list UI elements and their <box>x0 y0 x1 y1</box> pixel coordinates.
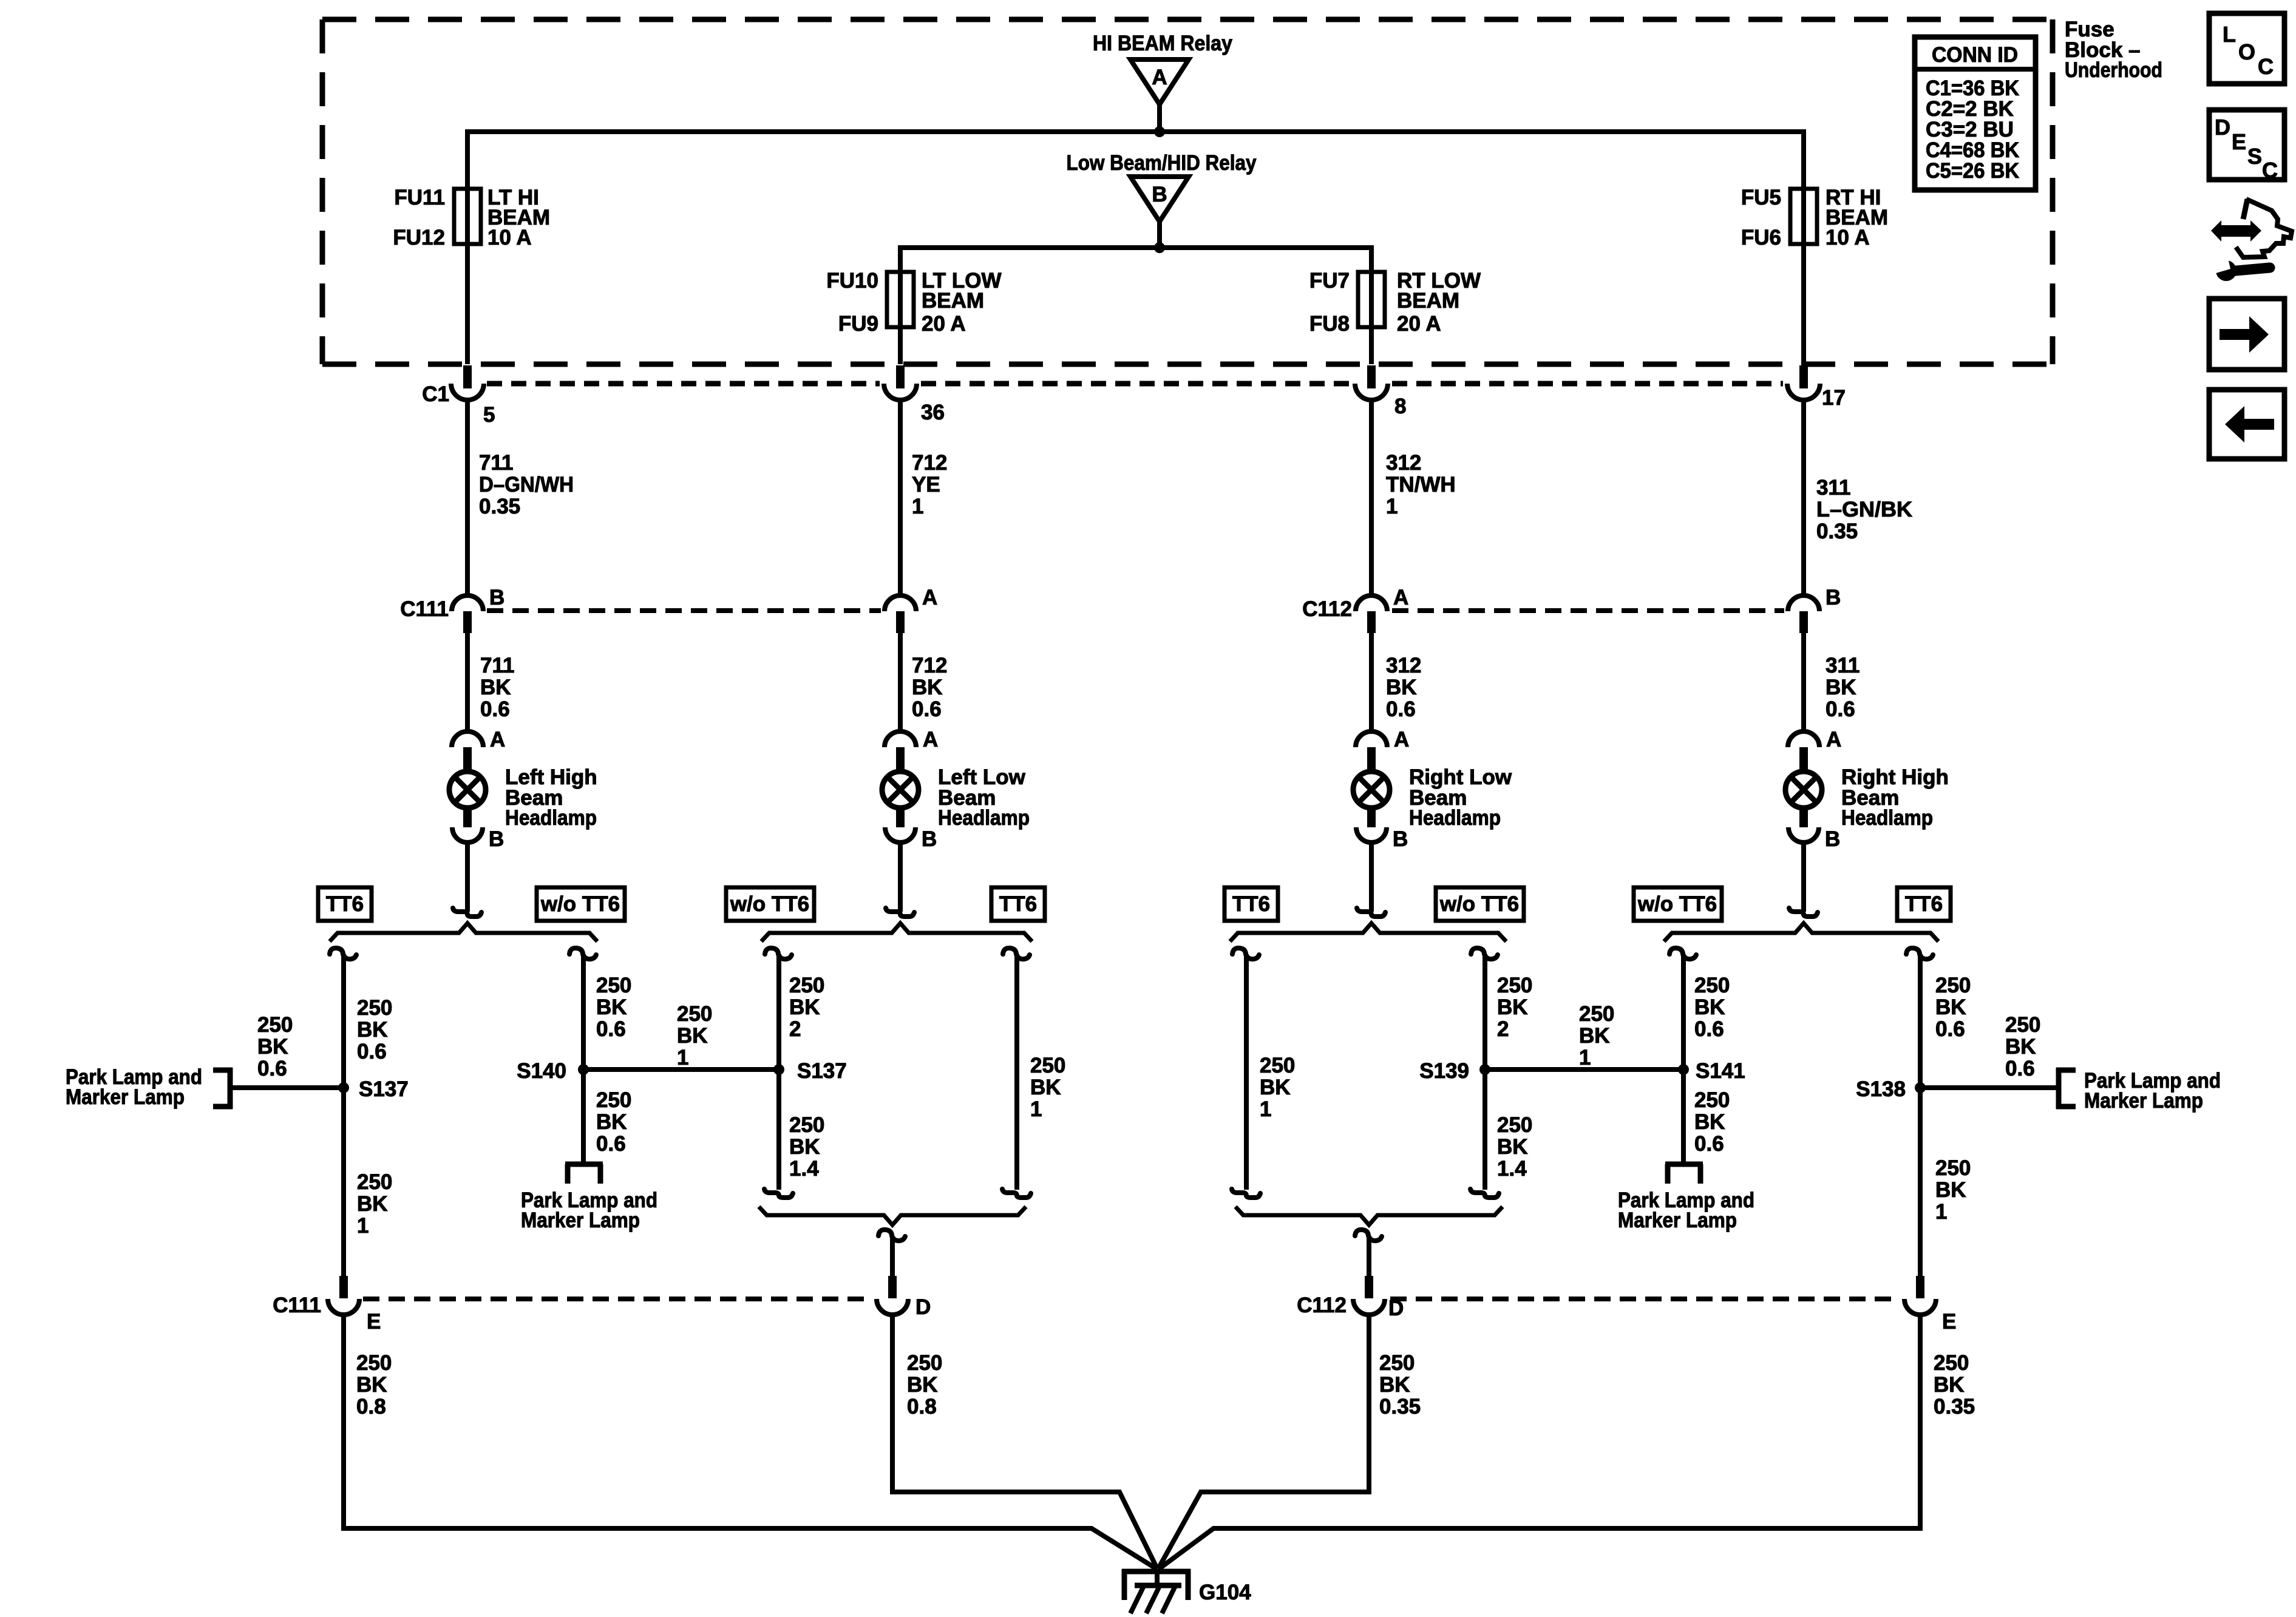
svg-text:250: 250 <box>1497 1113 1532 1137</box>
wire headlamp ground lead <box>886 842 914 917</box>
splice S137 (low beam leg) <box>773 1059 847 1083</box>
bulb Left Low Beam Headlamp <box>882 765 1030 830</box>
option box w/o TT6 <box>1634 887 1722 921</box>
svg-text:36: 36 <box>921 401 945 424</box>
svg-text:BK: BK <box>1260 1076 1291 1099</box>
svg-text:A: A <box>922 586 937 609</box>
svg-text:250: 250 <box>357 1170 392 1194</box>
wire 711 BK 0.6 <box>467 633 514 731</box>
svg-text:Underhood: Underhood <box>2065 58 2162 82</box>
svg-text:250: 250 <box>1694 1088 1730 1112</box>
option box w/o TT6 <box>726 887 814 921</box>
svg-text:712: 712 <box>912 654 947 677</box>
svg-text:D–GN/WH: D–GN/WH <box>479 473 574 497</box>
svg-text:BK: BK <box>1934 1373 1965 1397</box>
wire S140 to park lamp (250 BK 0.6) <box>583 1070 631 1164</box>
svg-text:Headlamp: Headlamp <box>938 806 1030 830</box>
ground G104 <box>1122 1568 1251 1613</box>
splice S140 <box>517 1059 589 1083</box>
adjust/repair icon (double arrow, outline, wrench) <box>2211 199 2292 281</box>
svg-text:S: S <box>2247 144 2262 169</box>
wire 250 BK 1 (TT6, right low) <box>1232 948 1295 1198</box>
connector C1 pin 8 <box>1355 365 1406 418</box>
svg-text:250: 250 <box>907 1351 942 1375</box>
wire 312 BK 0.6 <box>1371 633 1421 731</box>
headlamp pin B (Left High) <box>452 810 504 851</box>
wire S138 to park lamp (250 BK 0.6) <box>1920 1013 2057 1088</box>
svg-text:250: 250 <box>1030 1054 1065 1077</box>
merge brace to C111 pin D <box>759 1207 1026 1276</box>
svg-text:YE: YE <box>912 473 940 497</box>
svg-text:311: 311 <box>1816 476 1850 500</box>
svg-text:BK: BK <box>357 1192 388 1216</box>
options brace under Right High Beam <box>1664 923 1938 941</box>
svg-text:312: 312 <box>1386 654 1421 677</box>
C111 terminal E <box>328 1276 381 1334</box>
svg-text:C5=26 BK: C5=26 BK <box>1926 159 2019 183</box>
svg-text:250: 250 <box>1694 974 1730 997</box>
svg-text:250: 250 <box>257 1013 293 1037</box>
svg-text:BK: BK <box>1579 1024 1610 1048</box>
svg-text:BK: BK <box>2005 1035 2036 1059</box>
C111 terminal D <box>877 1276 931 1319</box>
svg-text:S140: S140 <box>517 1059 566 1083</box>
svg-text:G104: G104 <box>1199 1581 1251 1604</box>
svg-text:0.6: 0.6 <box>357 1040 387 1063</box>
svg-text:BK: BK <box>357 1018 388 1042</box>
C112 terminal E <box>1904 1276 1956 1334</box>
LOC icon box <box>2209 13 2284 84</box>
svg-text:L: L <box>2223 22 2236 47</box>
svg-text:w/o TT6: w/o TT6 <box>1439 892 1519 916</box>
wire 250 BK 2 (w/o TT6, to S137) <box>764 948 824 1198</box>
svg-text:Headlamp: Headlamp <box>1409 806 1501 830</box>
svg-text:1: 1 <box>677 1046 688 1070</box>
wire headlamp ground lead <box>1789 842 1818 917</box>
label Fuse Block - Underhood <box>2065 18 2162 82</box>
DESC icon box <box>2209 110 2284 183</box>
park lamp connector (left) <box>66 1065 233 1109</box>
svg-text:C: C <box>2262 158 2278 183</box>
option box TT6 <box>1224 887 1278 921</box>
wire headlamp ground lead <box>1357 842 1385 917</box>
svg-text:250: 250 <box>357 996 392 1020</box>
connector C112 dashed line <box>1392 608 1784 613</box>
svg-text:0.35: 0.35 <box>479 495 520 518</box>
svg-text:712: 712 <box>912 451 947 475</box>
CONN ID table <box>1915 37 2036 190</box>
svg-text:BK: BK <box>1694 995 1725 1019</box>
svg-text:B: B <box>489 586 504 609</box>
svg-text:5: 5 <box>483 403 495 427</box>
svg-text:1: 1 <box>357 1214 369 1238</box>
wire: HI BEAM relay feed bus <box>467 132 1804 189</box>
svg-text:1: 1 <box>912 495 923 518</box>
svg-text:S137: S137 <box>797 1059 847 1083</box>
wire 250 BK 0.6 (w/o TT6, to S140) <box>569 948 631 1070</box>
connector C11x terminal A <box>1356 586 1408 633</box>
fuse FU5/FU6 RT HI BEAM 10 A <box>1741 186 1888 249</box>
svg-text:2: 2 <box>789 1017 801 1041</box>
relay B: Low Beam/HID Relay <box>1067 151 1257 248</box>
connector C11x terminal A <box>885 586 937 633</box>
svg-text:0.6: 0.6 <box>1386 697 1416 721</box>
svg-text:Marker Lamp: Marker Lamp <box>2084 1089 2203 1113</box>
svg-text:Marker Lamp: Marker Lamp <box>1618 1209 1737 1232</box>
svg-text:FU8: FU8 <box>1309 312 1350 336</box>
svg-text:B: B <box>1826 586 1841 609</box>
svg-text:BK: BK <box>1935 1178 1966 1202</box>
svg-text:FU9: FU9 <box>838 312 878 336</box>
svg-text:2: 2 <box>1497 1017 1509 1041</box>
svg-text:BK: BK <box>596 1110 627 1134</box>
svg-text:0.6: 0.6 <box>1826 697 1855 721</box>
svg-text:0.6: 0.6 <box>1935 1017 1965 1041</box>
svg-text:FU5: FU5 <box>1741 186 1781 209</box>
svg-text:250: 250 <box>2005 1013 2040 1037</box>
wire 311 BK 0.6 <box>1804 633 1860 731</box>
splice S137 <box>338 1077 409 1101</box>
svg-text:D: D <box>1388 1297 1404 1320</box>
svg-text:8: 8 <box>1394 395 1406 418</box>
svg-text:250: 250 <box>1934 1351 1969 1375</box>
svg-text:D: D <box>2215 115 2230 140</box>
junction dot on bus B <box>1154 242 1165 253</box>
wire headlamp ground lead <box>453 842 481 917</box>
svg-text:C112: C112 <box>1297 1293 1347 1317</box>
svg-text:TT6: TT6 <box>999 892 1037 916</box>
svg-text:0.6: 0.6 <box>480 697 510 721</box>
svg-text:w/o TT6: w/o TT6 <box>540 892 620 916</box>
svg-text:S138: S138 <box>1856 1077 1906 1101</box>
svg-text:B: B <box>1393 827 1408 851</box>
svg-text:10 A: 10 A <box>487 226 532 249</box>
svg-text:250: 250 <box>1260 1054 1295 1077</box>
svg-text:0.6: 0.6 <box>1694 1017 1724 1041</box>
svg-text:0.6: 0.6 <box>596 1132 626 1156</box>
bulb Left High Beam Headlamp <box>449 765 597 830</box>
wire park lamp feed to S137 (250 BK 0.6) <box>231 1013 344 1088</box>
connector C1 pin 5 <box>451 365 495 427</box>
svg-text:BK: BK <box>1386 676 1417 699</box>
svg-text:CONN ID: CONN ID <box>1932 43 2018 67</box>
junction dot on bus A <box>1154 126 1165 137</box>
svg-text:FU12: FU12 <box>393 226 445 249</box>
wire 250 BK 0.35 C112-E to G104 <box>1160 1315 1975 1568</box>
svg-text:0.8: 0.8 <box>356 1395 386 1419</box>
connector C11x terminal B <box>452 586 504 633</box>
fuse FU11/FU12 LT HI BEAM 10 A <box>393 186 550 249</box>
svg-text:FU10: FU10 <box>826 269 878 293</box>
C111 label <box>400 597 449 621</box>
wire 250 BK 0.6 (TT6, to S137) <box>330 948 392 1276</box>
option box TT6 <box>318 887 372 921</box>
svg-text:250: 250 <box>789 1113 824 1137</box>
svg-text:E: E <box>1942 1310 1956 1334</box>
relay A: HI BEAM Relay <box>1093 32 1232 132</box>
svg-text:20 A: 20 A <box>922 312 966 336</box>
svg-text:0.35: 0.35 <box>1934 1395 1975 1419</box>
svg-text:C111: C111 <box>400 597 449 621</box>
svg-text:0.6: 0.6 <box>912 697 942 721</box>
svg-text:250: 250 <box>1379 1351 1415 1375</box>
options brace under Left High Beam <box>330 923 597 941</box>
svg-text:BK: BK <box>907 1373 938 1397</box>
svg-text:B: B <box>1825 827 1840 851</box>
wire S139 to S141 (250 BK 1) <box>1485 1002 1683 1070</box>
wire 712 BK 0.6 <box>900 633 947 731</box>
svg-text:TT6: TT6 <box>1232 892 1270 916</box>
svg-text:BK: BK <box>1694 1110 1725 1134</box>
wire 711 D-GN/WH 0.35 <box>467 400 574 595</box>
wire 312 TN/WH 1 <box>1371 400 1456 595</box>
headlamp pin B (Right High) <box>1788 810 1840 851</box>
wire fuse FU7 to C1 pin 8 <box>1369 268 1374 364</box>
svg-text:1: 1 <box>1386 495 1398 518</box>
svg-text:1: 1 <box>1260 1097 1271 1121</box>
connector C1 dotted line <box>487 381 1783 387</box>
wire fuse FU10 to C1 pin 36 <box>898 268 903 364</box>
option box w/o TT6 <box>537 887 625 921</box>
connector C111 dashed line <box>487 608 881 613</box>
svg-text:Marker Lamp: Marker Lamp <box>521 1209 640 1232</box>
svg-text:BK: BK <box>789 1135 820 1159</box>
fuse FU10/FU9 LT LOW BEAM 20 A <box>826 269 1001 336</box>
C112 terminal D <box>1353 1276 1404 1320</box>
svg-text:Low Beam/HID Relay: Low Beam/HID Relay <box>1067 151 1257 175</box>
svg-text:0.6: 0.6 <box>1694 1132 1724 1156</box>
svg-text:1.4: 1.4 <box>1497 1157 1527 1181</box>
svg-text:1: 1 <box>1579 1046 1591 1070</box>
headlamp pin A (Right Low) <box>1356 728 1409 770</box>
svg-text:BEAM: BEAM <box>922 289 984 313</box>
wire 250 BK 0.6 (TT6, to S138) <box>1906 948 1971 1276</box>
svg-text:A: A <box>1152 66 1167 89</box>
headlamp pin A (Left High) <box>452 728 505 770</box>
svg-text:C1: C1 <box>422 382 449 406</box>
option box w/o TT6 <box>1436 887 1524 921</box>
svg-text:BK: BK <box>1826 676 1856 699</box>
svg-text:250: 250 <box>789 974 824 997</box>
svg-text:1: 1 <box>1030 1097 1042 1121</box>
svg-text:311: 311 <box>1826 654 1860 677</box>
svg-text:A: A <box>1826 728 1841 751</box>
svg-text:FU7: FU7 <box>1309 269 1350 293</box>
svg-text:1.4: 1.4 <box>789 1157 819 1181</box>
svg-text:711: 711 <box>479 451 513 475</box>
park lamp connector (right) <box>2056 1068 2221 1113</box>
svg-text:S141: S141 <box>1696 1059 1745 1083</box>
svg-text:0.35: 0.35 <box>1816 520 1858 543</box>
wire 250 BK 1 (TT6, left low) <box>1002 948 1065 1198</box>
wire: Low Beam relay feed bus <box>900 248 1371 272</box>
svg-text:250: 250 <box>1579 1002 1614 1026</box>
svg-text:A: A <box>1393 586 1408 609</box>
headlamp pin A (Left Low) <box>885 728 938 770</box>
svg-text:S139: S139 <box>1419 1059 1469 1083</box>
connector C1 pin 17 <box>1787 365 1846 410</box>
forward arrow icon box <box>2209 299 2284 370</box>
svg-text:B: B <box>1152 183 1167 206</box>
back arrow icon box <box>2209 390 2284 459</box>
svg-text:BK: BK <box>1379 1373 1410 1397</box>
connector C1 pin 36 <box>884 365 945 424</box>
svg-text:HI BEAM Relay: HI BEAM Relay <box>1093 32 1232 55</box>
svg-text:A: A <box>1394 728 1409 751</box>
C111 label (lower) <box>273 1293 321 1317</box>
headlamp pin B (Right Low) <box>1356 810 1408 851</box>
svg-text:TT6: TT6 <box>1905 892 1943 916</box>
splice S141 <box>1678 1059 1745 1083</box>
svg-text:w/o TT6: w/o TT6 <box>1637 892 1717 916</box>
svg-text:BK: BK <box>1497 1135 1528 1159</box>
svg-text:17: 17 <box>1822 386 1846 410</box>
svg-text:C112: C112 <box>1302 597 1352 621</box>
svg-text:B: B <box>489 827 504 851</box>
bulb Right High Beam Headlamp <box>1785 765 1949 830</box>
svg-text:D: D <box>915 1295 931 1319</box>
park lamp connector (bottom right) <box>1618 1164 1754 1232</box>
svg-text:FU6: FU6 <box>1741 226 1781 249</box>
wire S140 to S137 (250 BK 1) <box>583 1002 779 1070</box>
svg-text:TT6: TT6 <box>326 892 364 916</box>
svg-text:BK: BK <box>677 1024 708 1048</box>
svg-text:BEAM: BEAM <box>1397 289 1459 313</box>
svg-text:BK: BK <box>1030 1076 1061 1099</box>
wire 250 BK 0.35 C112-D to G104 <box>1158 1315 1421 1568</box>
svg-text:BK: BK <box>480 676 511 699</box>
C112 label (lower) <box>1297 1293 1347 1317</box>
C1 label <box>422 382 449 406</box>
wire 250 BK 0.8 C111-E to G104 <box>344 1315 1156 1568</box>
wire 250 BK 2 (w/o TT6, to S139) <box>1470 948 1532 1198</box>
svg-text:FU11: FU11 <box>394 186 445 209</box>
svg-text:0.6: 0.6 <box>2005 1057 2035 1080</box>
svg-text:BK: BK <box>1935 995 1966 1019</box>
C112 label <box>1302 597 1352 621</box>
svg-text:Headlamp: Headlamp <box>505 806 597 830</box>
svg-text:A: A <box>490 728 505 751</box>
svg-text:BK: BK <box>912 676 943 699</box>
svg-text:C: C <box>2258 54 2274 79</box>
svg-text:312: 312 <box>1386 451 1421 475</box>
svg-text:B: B <box>922 827 937 851</box>
svg-text:O: O <box>2238 39 2255 64</box>
svg-text:0.35: 0.35 <box>1379 1395 1421 1419</box>
wire 311 L-GN/BK 0.35 <box>1804 400 1912 595</box>
fuse block underhood dashed border <box>322 19 2053 364</box>
svg-text:Headlamp: Headlamp <box>1841 806 1933 830</box>
svg-text:BK: BK <box>257 1035 288 1059</box>
svg-text:BK: BK <box>1497 995 1528 1019</box>
wire S141 to park lamp (250 BK 0.6) <box>1683 1070 1730 1164</box>
headlamp pin A (Right High) <box>1788 728 1841 770</box>
svg-text:TN/WH: TN/WH <box>1386 473 1456 497</box>
wire 712 YE 1 <box>900 400 947 595</box>
svg-text:250: 250 <box>356 1351 392 1375</box>
svg-text:0.6: 0.6 <box>596 1017 626 1041</box>
svg-text:0.8: 0.8 <box>907 1395 937 1419</box>
bulb Right Low Beam Headlamp <box>1353 765 1512 830</box>
svg-text:250: 250 <box>1935 1156 1971 1180</box>
connector C112 (lower) dashed line <box>1390 1297 1899 1301</box>
options brace under Left Low Beam <box>761 923 1032 941</box>
fuse FU7/FU8 RT LOW BEAM 20 A <box>1309 269 1481 336</box>
splice S138 <box>1856 1077 1926 1101</box>
merge brace to C112 pin D <box>1235 1207 1503 1276</box>
option box TT6 <box>991 887 1045 921</box>
svg-text:A: A <box>923 728 938 751</box>
svg-text:250: 250 <box>1497 974 1532 997</box>
headlamp pin B (Left Low) <box>885 810 937 851</box>
connector C111 (lower) dashed line <box>363 1297 873 1301</box>
wire 250 BK 0.6 (w/o TT6, to S141) <box>1669 948 1730 1070</box>
svg-text:1: 1 <box>1935 1200 1947 1224</box>
svg-text:250: 250 <box>677 1002 712 1026</box>
option box TT6 <box>1897 887 1951 921</box>
svg-text:L–GN/BK: L–GN/BK <box>1816 498 1912 521</box>
options brace under Right Low Beam <box>1230 923 1506 941</box>
svg-text:Marker Lamp: Marker Lamp <box>66 1085 185 1109</box>
svg-text:250: 250 <box>596 1088 631 1112</box>
svg-text:20 A: 20 A <box>1397 312 1441 336</box>
svg-text:S137: S137 <box>359 1077 409 1101</box>
svg-text:0.6: 0.6 <box>257 1057 287 1080</box>
wire fuse FU5 to C1 pin 17 <box>1801 185 1806 364</box>
svg-text:BK: BK <box>789 995 820 1019</box>
svg-text:250: 250 <box>1935 974 1971 997</box>
svg-text:w/o TT6: w/o TT6 <box>730 892 809 916</box>
svg-text:10 A: 10 A <box>1826 226 1870 249</box>
svg-text:C111: C111 <box>273 1293 321 1317</box>
connector C11x terminal B <box>1788 586 1841 633</box>
wire 250 BK 0.8 C111-D to G104 <box>892 1315 1157 1568</box>
wire fuse FU11 to C1 pin 5 <box>465 185 470 364</box>
svg-text:711: 711 <box>480 654 514 677</box>
svg-text:250: 250 <box>596 974 631 997</box>
svg-text:E: E <box>2232 129 2246 154</box>
svg-text:BK: BK <box>596 995 627 1019</box>
svg-text:E: E <box>367 1310 381 1334</box>
park lamp connector (bottom left) <box>521 1164 657 1232</box>
splice S139 <box>1419 1059 1490 1083</box>
svg-text:BK: BK <box>356 1373 387 1397</box>
